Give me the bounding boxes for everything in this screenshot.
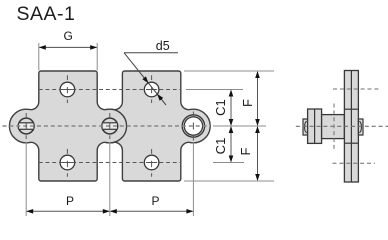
extension line chain centerline right (213, 125, 266, 127)
extension line plate bottom edge (184, 180, 274, 182)
side view: right pin end (358, 119, 363, 135)
pin 2 (riveted pin end) (102, 118, 118, 134)
side view: plate height lines across tall plates (344, 108, 358, 110)
d5 leader (124, 53, 178, 105)
C1 dimension bottom (230, 127, 232, 162)
side view: left link plates (308, 109, 322, 143)
side view: bottom hole centerline (333, 162, 376, 164)
svg-text:C1: C1 (213, 99, 228, 116)
side view: roller barrel (322, 115, 345, 139)
attachment hole top, plate 1 (60, 82, 75, 97)
attachment hole top, plate 2 (d5) (144, 82, 159, 97)
svg-text:P: P (152, 194, 160, 208)
svg-text:G: G (64, 29, 73, 43)
vertical centerline hole 1 top (66, 75, 68, 103)
F dimension bottom (257, 127, 259, 180)
pin 1 (riveted pin end) (18, 118, 34, 134)
attachment plate link 1 (front view, on top) (9, 71, 126, 181)
attachment plate link 2 (front view, drawn first - its left lobe is hidden behind link 1) (93, 71, 210, 181)
vertical centerline pin 1 (25, 113, 27, 139)
side view: tall attachment plates (344, 71, 358, 183)
P dimension line 2 (111, 210, 193, 212)
hole centerline bottom row (dashed) (39, 162, 181, 164)
side view: horizontal centerline (296, 125, 388, 127)
side view: top hole centerline (333, 88, 380, 90)
svg-text:P: P (66, 194, 74, 208)
vertical centerline hole 2 bottom (151, 149, 153, 177)
svg-text:d5: d5 (156, 39, 170, 53)
C1 dimension top (230, 91, 232, 126)
extension line bottom hole center (213, 162, 244, 164)
attachment hole bottom, plate 2 (144, 155, 159, 170)
P dimension line 1 (27, 210, 109, 212)
vertical centerline roller (192, 112, 194, 141)
F dimension top (257, 72, 259, 125)
svg-text:F: F (238, 147, 253, 155)
extension line top hole center (186, 89, 243, 91)
chain horizontal centerline (3, 125, 211, 127)
vertical centerline hole 2 top (151, 75, 153, 103)
side view: vertical centerline (333, 104, 335, 150)
vertical centerline pin 2 (109, 113, 111, 139)
svg-text:F: F (240, 99, 255, 107)
hole center cross ticks (62, 90, 157, 163)
roller (right chain end) (182, 115, 204, 137)
title SAA-1 (17, 3, 76, 26)
dimension labels (64, 29, 256, 208)
svg-text:C1: C1 (213, 138, 228, 155)
side view: left pin end (303, 119, 308, 135)
extension line plate top edge (184, 70, 274, 72)
G dimension (39, 43, 97, 71)
attachment hole bottom, plate 1 (60, 155, 75, 170)
vertical centerline hole 1 bottom (66, 149, 68, 177)
hole centerline top row (dashed) (39, 89, 181, 91)
P dimension extension lines (25, 142, 27, 216)
